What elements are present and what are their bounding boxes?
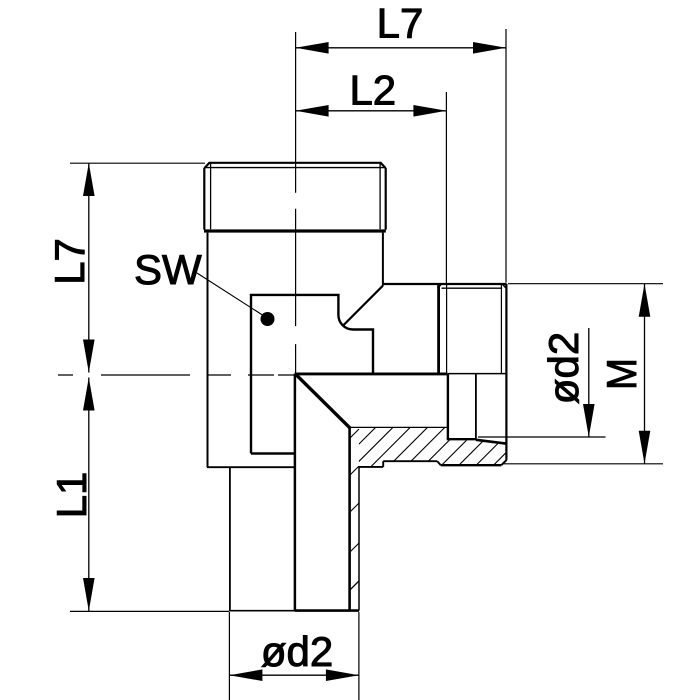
svg-text:L1: L1 — [48, 472, 95, 519]
hatch zone right — [330, 423, 553, 473]
top cap outline — [204, 162, 385, 229]
stud thick thread line — [437, 284, 440, 373]
cavity left wall — [447, 374, 449, 439]
foot profile right of pipe — [359, 461, 441, 467]
centerline horizontal — [58, 374, 294, 376]
stud top chamfers — [438, 284, 507, 289]
cavity bottom — [447, 438, 476, 440]
label L2 — [349, 67, 396, 114]
shallow diagonal — [476, 440, 506, 444]
svg-text:L7: L7 — [46, 238, 93, 285]
cavity right wall — [475, 374, 477, 440]
dimension L2 top — [296, 92, 447, 283]
dimension L7 left — [70, 163, 205, 373]
bore wall lower pipe — [348, 428, 351, 611]
pipe bottom edge — [229, 610, 359, 612]
centerline vertical — [295, 32, 297, 373]
label od2 bottom — [261, 628, 333, 675]
stud thread minor left — [446, 284, 448, 374]
shelf edge at side-port centerline — [295, 372, 507, 375]
dimension M right — [503, 284, 663, 464]
stud top face — [383, 283, 507, 285]
section boundary vertical at center — [294, 374, 297, 611]
top cap bottom edge — [204, 229, 386, 232]
lower pipe outer left — [229, 467, 231, 610]
top cap chamfer sub-line — [205, 167, 386, 169]
body right edge — [382, 233, 384, 286]
label od2 right — [540, 332, 587, 404]
connector bottom face — [441, 460, 507, 465]
body bottom face — [207, 466, 295, 468]
svg-text:L7: L7 — [377, 0, 424, 47]
pipe bottom inner chamfer — [350, 581, 359, 590]
svg-text:SW: SW — [134, 246, 202, 293]
label M — [598, 358, 645, 390]
stud end face — [505, 284, 507, 460]
label L7 left — [46, 238, 93, 285]
stud thread minor right — [500, 284, 502, 373]
svg-text:L2: L2 — [349, 67, 396, 114]
cone diagonal — [296, 374, 350, 428]
stud chamfer sub-line — [442, 287, 503, 289]
dimension od2 bottom — [229, 612, 359, 700]
dimension L7 top — [296, 29, 506, 283]
dimension od2 right — [478, 328, 606, 437]
body left edge — [207, 233, 209, 468]
lower pipe outer right — [358, 467, 360, 611]
svg-text:ød2: ød2 — [261, 628, 333, 675]
label SW with leader and dot — [134, 246, 275, 326]
svg-text:ød2: ød2 — [540, 332, 587, 404]
body chamfer diagonal — [343, 286, 383, 326]
svg-text:M: M — [598, 358, 645, 390]
hatch top boundary — [350, 426, 448, 428]
top cap thread lines — [211, 164, 381, 230]
hatch ticks in pipe wall — [350, 429, 359, 552]
socket profile — [251, 295, 373, 454]
label L7 top — [377, 0, 424, 47]
label L1 — [48, 472, 95, 519]
dimension L1 left — [70, 378, 229, 612]
